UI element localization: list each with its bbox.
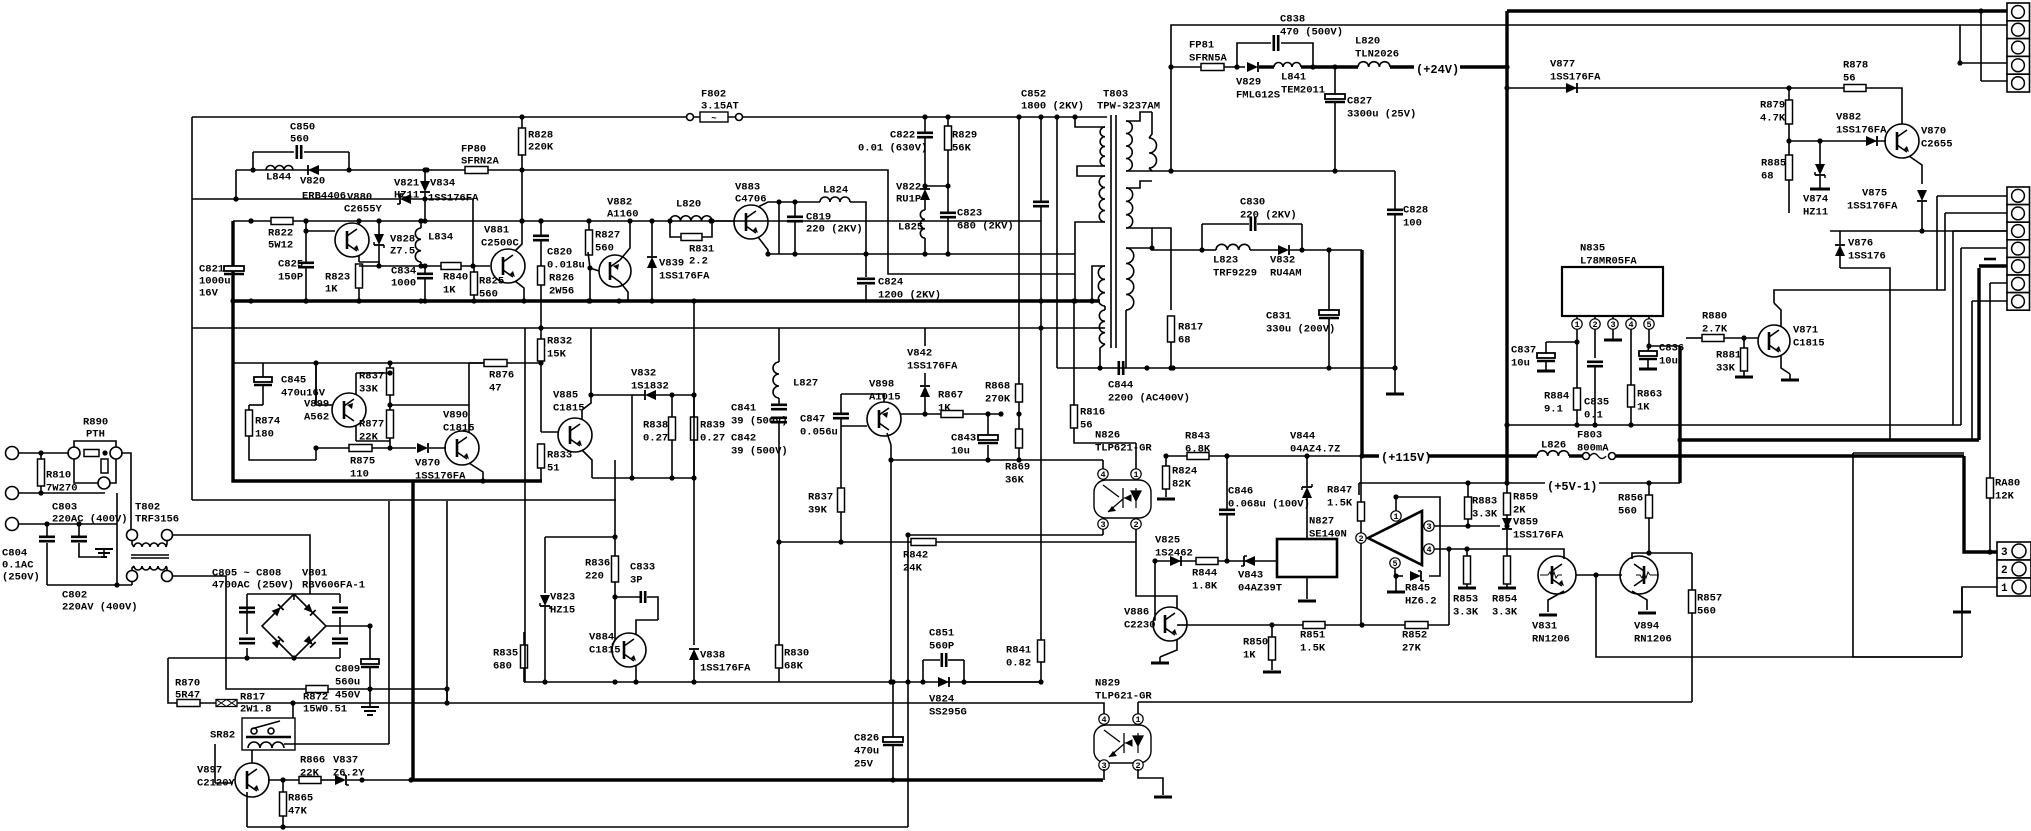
wire x=694 drop	[693, 301, 695, 478]
wire pin2 drop x=1361	[1360, 456, 1362, 502]
svg-text:C850: C850	[290, 122, 315, 134]
wire bottom thick rail y=780	[411, 778, 1103, 781]
svg-text:V801: V801	[302, 568, 327, 580]
svg-text:C845: C845	[281, 375, 306, 387]
svg-text:220: 220	[585, 571, 604, 583]
transistor V880 C2655Y	[335, 223, 369, 257]
svg-text:C1815: C1815	[553, 403, 585, 415]
svg-text:470u: 470u	[854, 746, 879, 758]
wire L827/C841 column x=780	[778, 328, 780, 362]
svg-text:V821: V821	[394, 178, 419, 190]
svg-text:C803: C803	[52, 502, 77, 514]
svg-text:220 (2KV): 220 (2KV)	[806, 224, 863, 236]
svg-text:3.3K: 3.3K	[1472, 509, 1498, 521]
svg-text:1K: 1K	[1637, 402, 1650, 414]
svg-text:R857: R857	[1697, 593, 1722, 605]
wire 3-pin pin1 ground	[1962, 587, 1997, 610]
ground below C809	[361, 707, 379, 715]
svg-text:0.018u: 0.018u	[547, 260, 585, 272]
svg-text:560: 560	[595, 243, 614, 255]
svg-text:220AV (400V): 220AV (400V)	[62, 602, 138, 614]
svg-text:RU1P: RU1P	[896, 194, 921, 206]
svg-text:V884: V884	[589, 632, 614, 644]
svg-text:R881: R881	[1716, 350, 1741, 362]
wire 7pin feeds	[1937, 195, 2007, 197]
svg-text:24K: 24K	[903, 563, 923, 575]
svg-text:F802: F802	[701, 89, 726, 101]
svg-text:1: 1	[1574, 320, 1579, 330]
svg-text:680: 680	[493, 661, 512, 673]
svg-text:R872: R872	[303, 692, 328, 704]
svg-text:TRF9229: TRF9229	[1213, 268, 1257, 280]
svg-text:C847: C847	[800, 414, 825, 426]
svg-text:T803: T803	[1103, 89, 1128, 101]
svg-text:10u: 10u	[1659, 356, 1678, 368]
svg-text:TLN2026: TLN2026	[1355, 49, 1399, 61]
svg-text:R830: R830	[784, 648, 809, 660]
op-amp pin 1	[1391, 511, 1401, 521]
svg-text:(+5V-1): (+5V-1)	[1547, 480, 1597, 494]
svg-text:R884: R884	[1544, 391, 1569, 403]
svg-text:4700AC (250V): 4700AC (250V)	[212, 580, 294, 592]
svg-text:3: 3	[1100, 520, 1105, 530]
svg-text:C820: C820	[547, 247, 572, 259]
svg-text:R828: R828	[528, 130, 553, 142]
svg-text:R817: R817	[1178, 322, 1203, 334]
svg-text:56: 56	[1843, 73, 1856, 85]
svg-text:V843: V843	[1238, 570, 1263, 582]
wire secondary line y=171 to C827	[1172, 170, 1395, 172]
svg-text:C1815: C1815	[1793, 338, 1825, 350]
svg-text:1SS176FA: 1SS176FA	[1836, 125, 1887, 137]
wire R870/R817 line y=703	[168, 658, 447, 703]
svg-text:2W1.8: 2W1.8	[240, 704, 272, 716]
svg-text:0.1: 0.1	[1584, 410, 1603, 422]
svg-text:0.82: 0.82	[1006, 658, 1031, 670]
svg-text:5W12: 5W12	[268, 240, 293, 252]
svg-text:3300u (25V): 3300u (25V)	[1347, 109, 1416, 121]
svg-text:2200 (AC400V): 2200 (AC400V)	[1108, 393, 1190, 405]
svg-text:16V: 16V	[199, 288, 219, 300]
svg-text:7W270: 7W270	[46, 483, 78, 495]
svg-text:L78MR05FA: L78MR05FA	[1580, 256, 1637, 268]
svg-text:56: 56	[1080, 420, 1093, 432]
junction dots y=221	[248, 218, 253, 223]
svg-text:800mA: 800mA	[1577, 443, 1609, 455]
svg-text:2W56: 2W56	[549, 286, 574, 298]
svg-text:TRF3156: TRF3156	[135, 514, 179, 526]
svg-text:V832: V832	[1270, 255, 1295, 267]
wire secondary line y=328	[192, 327, 1092, 329]
svg-text:C824: C824	[878, 277, 903, 289]
svg-text:C831: C831	[1266, 311, 1291, 323]
wire winding2 to R817	[1152, 228, 1171, 310]
svg-text:R869: R869	[1005, 462, 1030, 474]
svg-text:450V: 450V	[335, 690, 361, 702]
svg-text:2.7K: 2.7K	[1702, 324, 1728, 336]
pin 5 of N835	[1644, 319, 1654, 329]
svg-text:9.1: 9.1	[1544, 404, 1563, 416]
wire +115V thick drop x=1362	[1360, 250, 1363, 456]
svg-text:47K: 47K	[288, 806, 308, 818]
wire R835 top to y=632? simplified	[523, 681, 525, 683]
svg-text:1: 1	[1393, 512, 1398, 522]
wire pin5 to +5V drop	[1649, 345, 1680, 347]
svg-text:R850: R850	[1243, 637, 1268, 649]
wire +115V feed line y=456 left part	[1166, 455, 1362, 457]
wire T802 secondary to bridge	[172, 535, 310, 594]
svg-text:R875: R875	[350, 456, 375, 468]
svg-text:V837: V837	[333, 755, 358, 767]
svg-text:RN1206: RN1206	[1532, 634, 1570, 646]
svg-text:0.27: 0.27	[700, 433, 725, 445]
svg-text:C826: C826	[854, 733, 879, 745]
wire y=254 node	[768, 253, 1075, 255]
svg-text:1SS176FA: 1SS176FA	[1847, 201, 1898, 213]
wire V885 collector node	[591, 394, 632, 396]
wire thick y=440	[1680, 438, 1890, 441]
svg-text:R847: R847	[1327, 485, 1352, 497]
terminal AC input 3	[6, 518, 19, 531]
svg-text:C809: C809	[335, 664, 360, 676]
svg-text:470 (500V): 470 (500V)	[1280, 27, 1343, 39]
wire right frame thick top	[1507, 9, 2007, 12]
wire x=908 drop to bottom	[907, 682, 909, 827]
connector top right 5-pin	[2007, 3, 2030, 21]
svg-text:SS295G: SS295G	[929, 707, 967, 719]
wire bottom y=682 junctions	[542, 679, 547, 684]
svg-text:R816: R816	[1080, 407, 1105, 419]
wire R842 line y=542	[779, 541, 1136, 543]
svg-text:N826: N826	[1095, 430, 1120, 442]
svg-text:150P: 150P	[278, 272, 303, 284]
svg-text:3: 3	[1426, 522, 1431, 532]
wire x=541 node	[540, 328, 542, 363]
transformer T803 secondary winding 3	[1126, 248, 1134, 310]
svg-text:V844: V844	[1290, 431, 1315, 443]
svg-text:(+24V): (+24V)	[1416, 63, 1459, 77]
junction dot FP80 line	[424, 167, 429, 172]
svg-text:C823: C823	[957, 208, 982, 220]
wire line y=682	[660, 681, 1041, 683]
svg-text:V885: V885	[553, 390, 578, 402]
wire N826 pins	[1102, 460, 1104, 469]
svg-text:SFRN2A: SFRN2A	[461, 156, 500, 168]
svg-text:F803: F803	[1577, 430, 1602, 442]
svg-text:R866: R866	[300, 755, 325, 767]
wire R872 line y=689	[226, 658, 447, 689]
svg-text:1200 (2KV): 1200 (2KV)	[878, 290, 941, 302]
svg-text:C4706: C4706	[735, 194, 767, 206]
svg-text:R845: R845	[1405, 583, 1430, 595]
svg-text:HZ6.2: HZ6.2	[1405, 596, 1437, 608]
op-amp pin 3	[1424, 521, 1434, 531]
svg-text:C833: C833	[630, 562, 655, 574]
svg-text:560: 560	[1618, 506, 1637, 518]
connector right 7-pin	[2007, 187, 2030, 205]
svg-text:V876: V876	[1848, 238, 1873, 250]
svg-text:68: 68	[1761, 171, 1774, 183]
svg-text:1SS176: 1SS176	[1848, 251, 1886, 263]
wire bridge top rail	[247, 593, 340, 595]
svg-text:L820: L820	[1355, 36, 1380, 48]
svg-text:C827: C827	[1347, 96, 1372, 108]
pin 4 of N835	[1626, 319, 1636, 329]
svg-text:R817: R817	[240, 692, 265, 704]
svg-text:0.056u: 0.056u	[800, 427, 838, 439]
svg-text:V834: V834	[430, 178, 455, 190]
svg-text:1.5K: 1.5K	[1327, 498, 1353, 510]
svg-text:V838: V838	[700, 650, 725, 662]
svg-text:1000u: 1000u	[199, 276, 231, 288]
svg-text:R836: R836	[585, 558, 610, 570]
svg-text:C1815: C1815	[589, 645, 621, 657]
svg-text:R826: R826	[549, 273, 574, 285]
svg-text:R839: R839	[700, 420, 725, 432]
svg-text:L823: L823	[1213, 255, 1238, 267]
svg-text:2: 2	[1133, 520, 1138, 530]
svg-text:V820: V820	[300, 176, 325, 188]
svg-text:560u: 560u	[335, 677, 360, 689]
svg-text:C2230: C2230	[1124, 620, 1156, 632]
svg-text:R874: R874	[255, 416, 280, 428]
svg-text:V839: V839	[659, 258, 684, 270]
svg-text:560: 560	[1697, 606, 1716, 618]
wire y=535 opto line	[908, 534, 1103, 536]
wire +115V to connector	[1964, 456, 1997, 552]
svg-text:0.27: 0.27	[643, 433, 668, 445]
wire R841 top to V824 line	[964, 681, 1041, 683]
svg-text:R810: R810	[46, 470, 71, 482]
svg-text:V831: V831	[1532, 621, 1557, 633]
wire V877 line y=88	[1507, 87, 1846, 89]
svg-text:04AZ39T: 04AZ39T	[1238, 583, 1282, 595]
resistor R840 1K	[441, 263, 461, 270]
svg-text:R868: R868	[985, 381, 1010, 393]
svg-text:R840: R840	[443, 272, 468, 284]
transformer T803 lower-left winding	[1098, 266, 1105, 306]
svg-text:R885: R885	[1761, 158, 1786, 170]
svg-text:2: 2	[1358, 534, 1363, 544]
svg-text:1SS176FA: 1SS176FA	[907, 361, 958, 373]
svg-text:C852: C852	[1021, 89, 1046, 101]
svg-text:1.8K: 1.8K	[1192, 581, 1218, 593]
svg-text:1000: 1000	[391, 278, 416, 290]
op-amp pin 4	[1424, 544, 1434, 554]
svg-text:R879: R879	[1760, 100, 1785, 112]
svg-text:~: ~	[711, 114, 716, 124]
svg-text:R883: R883	[1472, 496, 1497, 508]
svg-text:C2500C: C2500C	[481, 238, 520, 250]
svg-text:V875: V875	[1862, 188, 1887, 200]
svg-text:C838: C838	[1280, 14, 1305, 26]
wire C830/L823 node	[1199, 247, 1204, 252]
svg-text:A1160: A1160	[607, 209, 639, 221]
wire y=266 node	[359, 265, 490, 267]
pin 1 of N835	[1572, 319, 1582, 329]
svg-text:V859: V859	[1513, 517, 1538, 529]
svg-text:1K: 1K	[325, 284, 338, 296]
svg-text:R880: R880	[1702, 311, 1727, 323]
wire right side frame lines	[1853, 452, 1964, 454]
svg-text:V874: V874	[1803, 194, 1828, 206]
svg-text:100: 100	[1403, 218, 1422, 230]
svg-text:C843: C843	[951, 433, 976, 445]
wire ground return y=425	[1507, 424, 1961, 426]
svg-text:R835: R835	[493, 648, 518, 660]
svg-text:33K: 33K	[359, 384, 379, 396]
svg-text:68K: 68K	[784, 661, 804, 673]
svg-text:N827: N827	[1309, 516, 1334, 528]
svg-text:V829: V829	[1236, 77, 1261, 89]
junction dots on primary bus	[230, 298, 235, 303]
op-amp N828 triangle	[1368, 511, 1422, 565]
svg-text:C819: C819	[806, 212, 831, 224]
svg-text:L827: L827	[793, 378, 818, 390]
svg-text:2: 2	[2001, 565, 2008, 577]
svg-text:V882: V882	[607, 197, 632, 209]
svg-text:25V: 25V	[854, 759, 874, 771]
wire N829 pins	[1050, 703, 1104, 714]
svg-text:5: 5	[1392, 559, 1397, 569]
wire base line y=141	[1789, 140, 1886, 142]
svg-text:A562: A562	[304, 412, 329, 424]
connector bottom right 3-pin	[1997, 542, 2031, 560]
svg-text:(+115V): (+115V)	[1381, 451, 1431, 465]
svg-text:C851: C851	[929, 628, 954, 640]
svg-text:560: 560	[479, 289, 498, 301]
wire x=447 lower	[446, 689, 448, 703]
svg-text:C837: C837	[1511, 345, 1536, 357]
svg-text:1S2462: 1S2462	[1155, 548, 1193, 560]
svg-text:C835: C835	[1584, 397, 1609, 409]
svg-text:C2655: C2655	[1921, 139, 1953, 151]
svg-text:39K: 39K	[808, 505, 828, 517]
svg-text:R844: R844	[1192, 568, 1217, 580]
svg-text:2: 2	[1592, 320, 1597, 330]
svg-text:04AZ4.7Z: 04AZ4.7Z	[1290, 444, 1340, 456]
svg-text:C846: C846	[1228, 486, 1253, 498]
svg-text:V881: V881	[484, 225, 509, 237]
wire y=368 line	[1057, 367, 1395, 369]
wire bottom control line y=625	[1186, 624, 1449, 626]
wire emitter y=414 to R867	[900, 413, 941, 415]
wire FP80 net y=170	[236, 170, 1075, 274]
svg-text:3.15AT: 3.15AT	[701, 101, 739, 113]
wire main box left edge	[191, 117, 193, 500]
op-amp pin 5	[1390, 558, 1400, 568]
wire x=1057 drop to C844 line	[1056, 117, 1058, 368]
svg-text:L841: L841	[1281, 72, 1306, 84]
svg-text:1: 1	[1135, 715, 1140, 725]
wire V831 to V894 base line	[1576, 574, 1622, 576]
svg-text:220K: 220K	[528, 142, 554, 154]
svg-text:R852: R852	[1402, 630, 1427, 642]
svg-text:C805 ~ C808: C805 ~ C808	[212, 568, 281, 580]
svg-text:R867: R867	[938, 390, 963, 402]
svg-text:R832: R832	[547, 336, 572, 348]
wire left of N829 line y=703	[447, 702, 1050, 704]
transformer T803 secondary winding top (+24V)	[1126, 121, 1132, 171]
wire op-amp feedback loop	[1396, 497, 1440, 576]
svg-text:V823: V823	[550, 592, 575, 604]
wire y=460	[614, 459, 616, 461]
wire x=891 vertical	[890, 445, 892, 682]
svg-text:HZ15: HZ15	[550, 605, 575, 617]
svg-text:R859: R859	[1513, 492, 1538, 504]
svg-text:R856: R856	[1618, 493, 1643, 505]
wire R869/C843 bottom to y=460 line	[891, 459, 1103, 461]
svg-text:R838: R838	[643, 420, 668, 432]
svg-text:L825: L825	[898, 222, 923, 234]
svg-text:C822: C822	[890, 130, 915, 142]
svg-text:HZ11: HZ11	[1803, 207, 1828, 219]
wire primary bus y=301 thick	[233, 299, 1100, 302]
svg-text:2.2: 2.2	[689, 256, 708, 268]
svg-text:C2655Y: C2655Y	[344, 204, 383, 216]
svg-text:3.3K: 3.3K	[1492, 607, 1518, 619]
svg-text:R878: R878	[1843, 60, 1868, 72]
svg-text:R865: R865	[288, 793, 313, 805]
wire relay coil to x=389	[284, 743, 389, 745]
svg-text:V898: V898	[869, 379, 894, 391]
svg-text:L824: L824	[823, 185, 848, 197]
svg-text:82K: 82K	[1172, 479, 1192, 491]
svg-text:3P: 3P	[630, 575, 643, 587]
wire snubber bottom y=478	[592, 477, 694, 479]
svg-text:FP81: FP81	[1189, 40, 1214, 52]
terminal AC input 1	[6, 447, 19, 460]
label (+5V-1) rail	[1359, 482, 1545, 484]
svg-text:180: 180	[255, 429, 274, 441]
svg-text:R854: R854	[1492, 594, 1517, 606]
terminal AC input 2	[6, 487, 19, 500]
capacitor bank left of bridge	[239, 608, 255, 612]
svg-text:SFRN5A: SFRN5A	[1189, 53, 1228, 65]
svg-text:56K: 56K	[952, 143, 972, 155]
svg-text:R823: R823	[325, 272, 350, 284]
svg-text:V886: V886	[1124, 607, 1149, 619]
svg-text:3.3K: 3.3K	[1453, 607, 1479, 619]
svg-text:RN1206: RN1206	[1634, 634, 1672, 646]
transformer T803 core	[1111, 115, 1116, 348]
svg-text:L834: L834	[428, 232, 453, 244]
wire V823 branch frame	[545, 536, 615, 538]
svg-text:RA80: RA80	[1995, 478, 2020, 490]
svg-text:V880: V880	[347, 192, 372, 204]
svg-text:1SS176FA: 1SS176FA	[1513, 530, 1564, 542]
svg-text:33K: 33K	[1716, 363, 1736, 375]
svg-text:FMLG12S: FMLG12S	[1236, 90, 1280, 102]
svg-text:R870: R870	[175, 678, 200, 690]
svg-text:N829: N829	[1095, 678, 1120, 690]
svg-text:110: 110	[350, 469, 369, 481]
svg-text:V828: V828	[390, 234, 415, 246]
svg-text:R831: R831	[689, 244, 714, 256]
svg-text:R827: R827	[595, 230, 620, 242]
op-amp pin 2	[1356, 533, 1366, 543]
svg-text:27K: 27K	[1402, 643, 1422, 655]
svg-text:0.068u (100V): 0.068u (100V)	[1228, 499, 1310, 511]
svg-text:1SS176FA: 1SS176FA	[415, 471, 466, 483]
wire V883 emitter-collector nets	[778, 202, 780, 254]
svg-text:R863: R863	[1637, 389, 1662, 401]
svg-text:3: 3	[2001, 547, 2008, 559]
svg-text:V883: V883	[735, 182, 760, 194]
svg-text:V870: V870	[415, 458, 440, 470]
wire C822/R829 bottom y=186	[925, 185, 948, 187]
svg-text:3: 3	[1610, 320, 1615, 330]
